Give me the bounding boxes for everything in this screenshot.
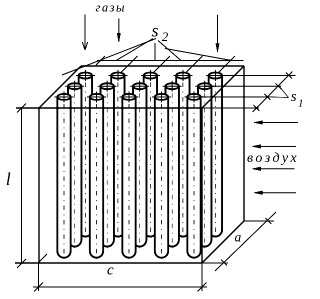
svg-text:s: s xyxy=(152,20,159,40)
svg-text:s: s xyxy=(291,89,297,105)
svg-text:газы: газы xyxy=(96,0,126,14)
svg-text:1: 1 xyxy=(298,98,304,110)
svg-text:2: 2 xyxy=(162,29,169,44)
svg-text:c: c xyxy=(107,263,114,279)
svg-text:a: a xyxy=(235,230,242,245)
svg-text:воздух: воздух xyxy=(247,151,299,166)
svg-text:l: l xyxy=(6,169,11,189)
